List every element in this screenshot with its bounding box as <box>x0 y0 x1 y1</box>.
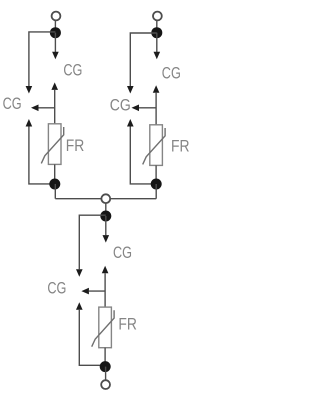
spark gap CG6 top electrode arrow (down) <box>76 269 83 277</box>
svg-text:FR: FR <box>171 137 190 155</box>
wire: FR2 bottom to node N4 <box>155 165 157 184</box>
spark gap CG3 lower electrode arrow (up) <box>153 85 160 93</box>
spark gap CG6 side electrode wire (from FR3 lead) <box>89 290 105 292</box>
branch 1: line terminal X1 <box>52 12 61 21</box>
wire: N2 jog down to bus <box>54 184 56 199</box>
varistor FR3 body <box>99 307 112 348</box>
wire: CG2 bottom electrode down and right to node N2 <box>29 127 55 184</box>
svg-text:CG: CG <box>110 97 131 115</box>
spark gap CG4 side electrode arrow (left) <box>132 105 140 112</box>
spark gap CG4 bottom electrode arrow (up) <box>127 119 134 127</box>
node N5 <box>100 211 111 222</box>
node N3 <box>151 27 162 38</box>
varistor FR1 body <box>48 124 61 165</box>
spark gap CG5 lower electrode arrow (up) <box>102 266 109 274</box>
spark gap CG6 bottom electrode arrow (up) <box>76 302 83 310</box>
node N1 <box>50 27 61 38</box>
spark gap CG2 bottom electrode arrow (up) <box>26 119 33 127</box>
spark gap CG6 side electrode arrow (left) <box>81 288 89 295</box>
wire: N6 to terminal X4 <box>105 367 107 381</box>
wire: terminal X1 to node N1 <box>54 21 56 33</box>
varistor FR2 body <box>150 125 163 166</box>
svg-text:CG: CG <box>47 279 66 297</box>
wire: N1 left and down to spark gap CG2 top electrode <box>29 32 56 86</box>
wire: N1 down to spark gap CG1 upper electrode <box>54 33 56 52</box>
wire: N3 left and down to spark gap CG4 top electrode <box>130 33 157 86</box>
node N2 <box>49 179 60 190</box>
wire: CG3 lower electrode to varistor FR2 top <box>155 93 157 125</box>
svg-text:CG: CG <box>113 244 132 262</box>
varistor FR3 diagonal <box>92 310 114 346</box>
varistor FR2 diagonal <box>143 128 165 164</box>
spark gap CG4 side electrode wire (from FR2 lead) <box>139 107 156 109</box>
common terminal X3 on bus <box>101 194 110 203</box>
wire: CG5 lower electrode to varistor FR3 top <box>104 273 106 307</box>
wire: N4 jog down to bus <box>155 184 157 199</box>
spark gap CG2 side electrode arrow (left) <box>31 105 39 112</box>
svg-text:FR: FR <box>66 137 85 155</box>
branch 2: line terminal X2 <box>153 12 162 21</box>
node N6 <box>100 361 111 372</box>
wire: N5 left and down to spark gap CG6 top electrode <box>79 215 106 269</box>
spark gap CG2 side electrode wire (from FR1 lead) <box>39 107 55 109</box>
svg-text:FR: FR <box>118 315 136 333</box>
wire: CG4 bottom electrode down and right to node N4 <box>130 127 156 184</box>
wire: FR1 bottom to node N2 <box>54 164 56 184</box>
wire: CG6 bottom electrode down and right to node N6 <box>79 310 105 366</box>
wire: FR3 bottom to node N6 <box>104 348 106 367</box>
node N4 <box>151 179 162 190</box>
wire: CG1 lower electrode to varistor FR1 top <box>54 90 56 124</box>
spark gap CG1 upper electrode arrow (down) <box>52 52 59 60</box>
spark gap CG1 lower electrode arrow (up) <box>51 82 58 90</box>
spark gap CG2 top electrode arrow (down) <box>26 86 33 94</box>
ground terminal X4 <box>101 380 110 389</box>
wire: N5 down to spark gap CG5 upper electrode <box>105 216 107 235</box>
wire: common bus <box>55 198 156 200</box>
varistor FR1 diagonal <box>41 127 63 163</box>
wire: terminal X3 to node N5 <box>105 203 107 216</box>
svg-text:CG: CG <box>3 95 22 113</box>
spark gap CG3 upper electrode arrow (down) <box>154 52 161 60</box>
spark gap CG4 top electrode arrow (down) <box>127 86 134 94</box>
spark gap CG5 upper electrode arrow (down) <box>103 235 110 243</box>
svg-text:CG: CG <box>63 62 82 80</box>
wire: terminal X2 to node N3 <box>156 21 158 33</box>
wire: N3 down to spark gap CG3 upper electrode <box>156 33 158 52</box>
svg-text:CG: CG <box>162 65 181 83</box>
